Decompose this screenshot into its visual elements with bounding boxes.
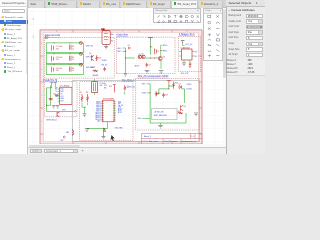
net flag D (75, 110, 77, 112)
svg-text:3V3: 3V3 (104, 84, 107, 86)
canvas horizontal scrollbar (28, 144, 222, 147)
LED D3 (79, 63, 82, 66)
svg-text:XPD: XPD (118, 106, 122, 108)
power flag VCC3 (109, 84, 116, 92)
net labels E mid (104, 84, 107, 89)
ground D1 (52, 105, 56, 107)
svg-text:U5 ESP8266EX: U5 ESP8266EX (103, 98, 115, 100)
block B title (116, 33, 128, 36)
block E title (122, 78, 135, 81)
net label F GND (142, 92, 150, 94)
ground LS1 (104, 44, 108, 49)
svg-text:R7: R7 (80, 92, 82, 94)
svg-text:GPIO3: GPIO3 (96, 106, 101, 108)
transistor Q2 (139, 53, 146, 58)
svg-text:EN_5V: EN_5V (102, 64, 108, 66)
svg-text:NC: NC (195, 55, 198, 57)
block D title (44, 78, 58, 81)
svg-text:OUT: OUT (60, 140, 64, 142)
ground B input (124, 73, 128, 75)
net label GPIO13 (86, 67, 94, 69)
ground F right (194, 113, 198, 116)
svg-text:R15 10k: R15 10k (129, 86, 135, 88)
svg-text:C7: C7 (149, 64, 151, 66)
net labels U5 left (95, 101, 101, 122)
svg-text:RST: RST (118, 103, 121, 105)
power flag D2f (54, 82, 57, 85)
svg-text:C19: C19 (165, 94, 168, 96)
svg-text:RTS: RTS (60, 100, 63, 102)
svg-text:GPIO12: GPIO12 (95, 111, 101, 113)
svg-text:4: 4 (33, 18, 35, 20)
svg-text:BEEP: BEEP (91, 67, 97, 69)
svg-text:R10: R10 (98, 57, 101, 59)
svg-text:LS1: LS1 (102, 29, 105, 31)
svg-text:VCC_5V: VCC_5V (185, 43, 193, 45)
svg-text:MIC+: MIC+ (118, 47, 122, 49)
capacitor C15 (146, 62, 152, 67)
svg-text:GPIO5: GPIO5 (96, 110, 101, 112)
svg-text:1k: 1k (72, 59, 74, 61)
net label MIC- (118, 51, 126, 53)
svg-text:R12: R12 (175, 82, 178, 84)
svg-text:Q3: Q3 (163, 56, 165, 58)
ground F center (158, 123, 163, 128)
regulator U1 (179, 46, 194, 60)
svg-text:R16: R16 (157, 93, 160, 95)
schematic canvas (28, 8, 226, 155)
frame zone labels (33, 18, 189, 122)
net label AOUT (135, 64, 141, 67)
svg-text:U7 CH340G: U7 CH340G (60, 85, 70, 87)
svg-text:GPIO1: GPIO1 (96, 103, 101, 105)
block C title (179, 32, 195, 35)
capacitor C16 (189, 63, 192, 66)
resistor R16 (155, 91, 160, 96)
block F dashed border (136, 78, 200, 130)
svg-text:MTDO: MTDO (118, 108, 123, 110)
svg-text:GPIO2: GPIO2 (96, 104, 101, 106)
svg-text:SPK+: SPK+ (163, 45, 169, 47)
svg-text:GPIO13: GPIO13 (95, 113, 101, 115)
power flag VCC4 (167, 80, 171, 83)
capacitor C12 (128, 45, 131, 49)
block D dashed border (45, 81, 78, 116)
transistor QD1 (57, 112, 59, 117)
svg-text:TITLE:: TITLE: (142, 141, 148, 143)
resistor R15 (124, 85, 135, 94)
resistor R9 (178, 110, 184, 113)
svg-text:U1 AMS1117: U1 AMS1117 (181, 46, 191, 49)
group box main (72, 80, 199, 141)
LED D2 (79, 52, 82, 55)
net label C1 (183, 43, 193, 46)
svg-text:GPIO14: GPIO14 (95, 115, 101, 117)
svg-text:SENSE: SENSE (93, 74, 100, 76)
svg-text:Pwdk HG Hj: Pwdk HG Hj (44, 78, 58, 81)
svg-text:VCC: VCC (60, 95, 64, 97)
capacitor C3 (52, 66, 63, 72)
capacitor C18 (162, 92, 168, 97)
svg-text:Q9: Q9 (89, 53, 91, 55)
svg-text:Wre_Pb compression SDIO: Wre_Pb compression SDIO (138, 74, 169, 77)
IC U5 (101, 98, 116, 121)
svg-text:U6 Wre_Pb: U6 Wre_Pb (154, 110, 164, 113)
svg-text:1k: 1k (72, 48, 74, 50)
svg-text:MTDI: MTDI (118, 110, 122, 112)
title block (142, 133, 203, 144)
wire D rails (47, 85, 58, 105)
svg-text:AOUT: AOUT (135, 64, 141, 67)
svg-text:VSYS: VSYS (187, 84, 193, 86)
pin names U7 (60, 88, 64, 102)
capacitor C2b (69, 55, 74, 61)
net label DTR (62, 109, 66, 111)
svg-text:VDD: VDD (118, 101, 122, 103)
capacitor C11 (103, 67, 106, 71)
block C dashed border (179, 36, 201, 71)
left project tree sidebar (0, 0, 28, 154)
resistor R12 (173, 81, 178, 87)
wire loop A1 (46, 42, 83, 52)
right attributes panel (226, 0, 265, 154)
block E dashed border (80, 81, 133, 140)
resistor RA1 (96, 55, 101, 61)
ground C2g (189, 66, 192, 67)
net labels CE1 (100, 82, 106, 86)
svg-text:Evolveresch_v1: Evolveresch_v1 (182, 141, 197, 143)
net labels U1 right (195, 51, 198, 58)
ground D2 (56, 105, 60, 107)
resistor R7 (80, 92, 83, 102)
power flag VCC1 (148, 37, 153, 40)
power flag D1f (50, 82, 53, 85)
svg-text:Sheet_1: Sheet_1 (144, 135, 152, 138)
resistor R4a (93, 69, 100, 76)
net label GPIO14 (86, 45, 94, 47)
svg-text:IN-: IN- (111, 40, 114, 42)
svg-text:FB1: FB1 (66, 131, 69, 133)
buzzer LS1 (102, 29, 111, 44)
svg-text:16V: 16V (100, 85, 104, 87)
svg-text:C4: C4 (128, 45, 130, 47)
svg-text:Tuk_WCamera: Tuk_WCamera (164, 141, 178, 143)
svg-text:VUSB: VUSB (102, 60, 108, 62)
svg-text:D4: D4 (179, 83, 181, 85)
svg-text:VCHG: VCHG (187, 88, 193, 90)
net label CHG (137, 118, 150, 120)
canvas vertical scrollbar (223, 8, 227, 147)
wire loop A2 (46, 53, 83, 63)
svg-text:Antenna Coils: Antenna Coils (45, 34, 61, 37)
svg-text:EN: EN (104, 87, 107, 89)
svg-text:R9: R9 (178, 110, 180, 112)
svg-text:R6: R6 (54, 93, 56, 95)
transistor Q3 (158, 56, 165, 60)
svg-text:R8: R8 (86, 92, 88, 94)
net labels U5 right (118, 101, 124, 114)
ground E left (83, 113, 87, 116)
net label SPK- (163, 50, 168, 52)
svg-text:SPK-: SPK- (163, 50, 168, 52)
svg-text:GPIO16: GPIO16 (95, 118, 101, 120)
svg-text:1k: 1k (72, 70, 74, 72)
svg-text:VIN: VIN (142, 83, 146, 85)
ground C (182, 62, 186, 65)
LED D1 (79, 41, 82, 44)
svg-text:GPIO12: GPIO12 (86, 56, 94, 58)
svg-text:ESP_WROOM: ESP_WROOM (154, 115, 167, 117)
svg-text:RXD: RXD (60, 91, 64, 93)
net port IN1 (45, 36, 48, 38)
net label E bottom (115, 126, 124, 129)
bottom sheet bar (28, 147, 226, 155)
wire B chain (145, 57, 158, 58)
net labels U7 (55, 88, 58, 97)
net label GPIO12 (86, 56, 94, 58)
inductor L2 (66, 129, 74, 136)
wire C out (184, 60, 190, 63)
wire B vcc (150, 40, 153, 54)
block F title (138, 74, 169, 77)
svg-text:MTCK: MTCK (118, 111, 122, 113)
IC U6 (152, 108, 178, 119)
wiring tools palette (153, 8, 201, 23)
net label MIC+ (118, 47, 126, 49)
svg-text:GND_PAD: GND_PAD (115, 126, 124, 129)
svg-text:3: 3 (33, 36, 35, 38)
diode D4 (179, 83, 182, 88)
block A title (45, 34, 61, 37)
svg-text:GND: GND (60, 98, 64, 100)
title block text (142, 135, 197, 143)
net flag E low (60, 135, 65, 141)
svg-text:MIC-: MIC- (118, 51, 122, 53)
ground B out2 (159, 70, 164, 73)
drawing tools palette (203, 8, 223, 61)
svg-text:GPIO4: GPIO4 (96, 108, 101, 110)
transistor Q1 (138, 55, 142, 59)
net label A7 (102, 60, 108, 62)
svg-text:GND: GND (142, 92, 147, 94)
net label D under (47, 119, 57, 121)
ground E b1 (85, 128, 89, 131)
svg-text:3V3_OUT: 3V3_OUT (181, 72, 190, 74)
IC U7 (58, 85, 73, 104)
svg-text:3V3: 3V3 (109, 85, 112, 87)
transistor QA1 (89, 53, 94, 61)
svg-text:GPIO15: GPIO15 (95, 117, 101, 119)
svg-text:Q1 Q2: Q1 Q2 (139, 53, 144, 55)
capacitor C1 (52, 45, 63, 51)
svg-text:3 Stages To-C: 3 Stages To-C (179, 32, 195, 35)
svg-text:Audio filter: Audio filter (116, 33, 128, 36)
capacitor C17 (49, 98, 53, 100)
net label A8 (102, 64, 108, 66)
wire loop A3 (46, 64, 83, 74)
ground E b2 (102, 133, 106, 139)
block A dashed border (44, 37, 114, 78)
svg-text:V3: V3 (60, 93, 62, 95)
net label F VIN (142, 83, 150, 85)
svg-text:C5: C5 (157, 51, 159, 53)
sidebar scrollbar (26, 8, 27, 74)
svg-text:VO: VO (195, 51, 198, 53)
svg-text:Wre_MCU_b: Wre_MCU_b (122, 78, 135, 81)
resistor R8 (86, 92, 88, 102)
wire D bottom (46, 104, 75, 111)
wire B rail (125, 48, 135, 73)
net labels LS1 (111, 33, 114, 42)
svg-text:GPIO0: GPIO0 (96, 101, 101, 103)
capacitor C5 (155, 48, 159, 54)
svg-text:WROOM_02: WROOM_02 (47, 119, 57, 121)
svg-text:1.1: 1.1 (191, 136, 195, 138)
capacitor C1b (69, 44, 74, 50)
sheet frame (40, 29, 202, 143)
capacitor C3b (69, 66, 74, 72)
net label SPK+ (163, 45, 169, 47)
net label A6 (91, 67, 97, 69)
document tab bar (28, 0, 226, 8)
svg-text:Wre_Cam: Wre_Cam (149, 141, 158, 143)
svg-text:CHG: CHG (137, 118, 142, 120)
svg-text:Q6: Q6 (184, 106, 186, 108)
block B dashed border (117, 37, 176, 74)
mouse cursor (111, 134, 115, 141)
capacitor CE1 (92, 79, 98, 95)
wire F net (150, 83, 186, 123)
svg-text:CH_PD: CH_PD (118, 104, 124, 106)
ground B out (145, 70, 150, 73)
capacitor CE2 (103, 128, 106, 131)
svg-text:GPIO14: GPIO14 (86, 45, 94, 47)
net label C3V3 (181, 72, 190, 74)
net labels F right top (187, 84, 193, 91)
canvas grid (28, 8, 226, 147)
transistor Q6 (181, 105, 186, 111)
power flag VCC2 (181, 40, 185, 43)
wire E resistors (82, 102, 88, 113)
resistor R6 (54, 93, 59, 96)
capacitor C2 (52, 55, 63, 61)
wire E bottom (87, 121, 108, 133)
svg-text:IN+: IN+ (111, 33, 114, 35)
wire B out (160, 45, 162, 69)
